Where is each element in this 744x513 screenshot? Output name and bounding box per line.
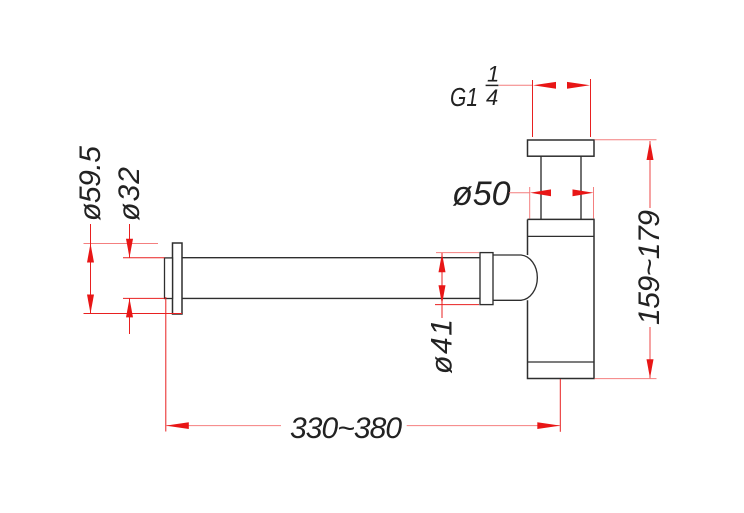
dimension φ50 arrow right <box>573 189 594 196</box>
dimension 159~179 arrow down <box>647 359 654 378</box>
dimension 330~380 right line <box>407 425 560 427</box>
svg-text:4: 4 <box>486 85 498 110</box>
dimension 330~380 arrow right <box>537 422 560 429</box>
dimension 330~380 left line <box>166 425 281 427</box>
pipe end section with rounded tip <box>493 255 537 300</box>
dimension 159~179 extension line bottom <box>595 378 657 380</box>
svg-text:1: 1 <box>487 62 499 87</box>
label 330~380 <box>290 412 402 445</box>
label 159~179 <box>633 210 666 325</box>
dimension φ50 leader line <box>509 192 530 194</box>
dimension φ41 arrow down <box>439 285 446 304</box>
body bottom ring line <box>528 361 595 363</box>
body top cap <box>528 140 595 156</box>
horizontal pipe bottom line <box>182 297 480 299</box>
dimension φ59.5 arrow down <box>87 295 94 314</box>
dimension φ50 extension line right <box>593 187 595 219</box>
svg-text:ø59.5: ø59.5 <box>74 146 107 221</box>
svg-text:G1: G1 <box>450 82 478 112</box>
escutcheon flange <box>173 243 183 314</box>
trap body outline <box>528 219 595 378</box>
dimension φ59.5 arrow up <box>87 244 94 263</box>
dimension G1 1/4 arrow right <box>567 82 590 89</box>
dimension G1 1/4 extension line right <box>590 79 592 137</box>
compression nut <box>480 253 493 305</box>
dimension G1 1/4 arrow left <box>533 82 556 89</box>
label G1 1/4 <box>450 62 499 113</box>
dimension φ50 extension line left <box>529 187 531 219</box>
svg-text:ø50: ø50 <box>452 175 511 213</box>
dimension φ32 upper line <box>129 224 131 258</box>
body neck left line <box>540 156 542 219</box>
dimension 330~380 extension line left <box>165 297 167 432</box>
dimension 330~380 extension line right <box>559 379 561 432</box>
dimension φ32 lower line <box>129 298 131 334</box>
svg-text:159~179: 159~179 <box>633 210 666 325</box>
label φ50 <box>452 175 511 213</box>
dimension φ41 line <box>441 253 443 318</box>
dimension φ50 arrow left <box>530 189 551 196</box>
dimension φ32 extension line bottom <box>123 297 165 299</box>
dimension φ32 extension line top <box>123 257 165 259</box>
dimension φ41 arrow up <box>439 253 446 272</box>
dimension G1 1/4 extension line left <box>532 80 534 137</box>
horizontal pipe top line <box>182 257 480 259</box>
label φ41 <box>426 319 459 374</box>
inlet tailpiece end <box>165 258 173 299</box>
dimension 159~179 lower line <box>649 327 651 378</box>
dimension 159~179 upper line <box>649 141 651 208</box>
dimension φ59.5 line <box>90 224 92 314</box>
svg-text:ø32: ø32 <box>113 167 146 221</box>
dimension φ59.5 extension line bottom <box>84 313 183 315</box>
dimension 159~179 extension line top <box>595 139 657 141</box>
dimension φ32 arrow up <box>126 298 133 317</box>
label φ32 <box>113 167 146 221</box>
dimension 159~179 arrow up <box>647 141 654 160</box>
dimension 330~380 arrow left <box>166 422 189 429</box>
dimension φ32 arrow down <box>126 239 133 258</box>
dimension φ41 extension line bottom <box>435 304 479 306</box>
dimension φ41 extension line top <box>436 252 479 254</box>
body shoulder line <box>528 235 595 237</box>
dimension φ59.5 extension line top <box>84 243 159 245</box>
svg-text:ø41: ø41 <box>426 319 459 374</box>
label φ59.5 <box>74 146 107 221</box>
svg-text:330~380: 330~380 <box>290 412 402 445</box>
dimension G1 1/4 leader line <box>499 84 533 86</box>
body neck right line <box>580 156 582 219</box>
